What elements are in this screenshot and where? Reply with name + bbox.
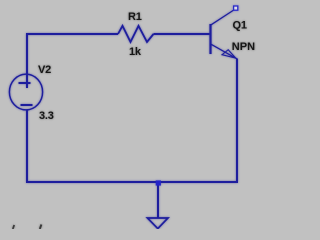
svg-text:NPN: NPN <box>232 41 255 53</box>
soft glow underlay of whole schematic <box>9 6 255 229</box>
wire top-left horizontal (node N1) <box>27 33 118 35</box>
svg-text:R1: R1 <box>128 11 142 23</box>
wire left vertical from corner to V2 plus stem <box>26 33 28 88</box>
V2 minus sign bar <box>21 104 33 106</box>
transistor Q1 base bar <box>209 24 211 54</box>
svg-text:V2: V2 <box>38 64 51 76</box>
svg-text:1k: 1k <box>129 46 142 58</box>
V2 plus sign crossbar <box>19 82 31 84</box>
svg-text:Q1: Q1 <box>233 20 247 32</box>
wire bottom rail (ground net) <box>26 181 238 183</box>
ground stub wire <box>157 183 159 218</box>
wire resistor right to base (node N2) <box>154 33 210 35</box>
junction dot (bottom rail / ground) <box>156 180 161 185</box>
voltage source V2 circle <box>9 74 42 110</box>
transistor Q1 emitter diagonal <box>211 44 237 59</box>
ground symbol triangle <box>147 218 168 229</box>
wire right vertical (emitter to bottom rail) <box>236 59 238 184</box>
cut-off text artifact 2 (bottom-left) <box>40 225 42 230</box>
cut-off text artifact 1 (bottom-left) <box>13 225 14 229</box>
svg-text:3.3: 3.3 <box>39 110 54 122</box>
wire V2 bottom to bottom rail <box>26 110 28 183</box>
transistor Q1 collector diagonal <box>211 10 234 25</box>
resistor R1 zigzag body <box>118 26 154 42</box>
collector open pin square terminal <box>234 6 238 10</box>
transistor Q1 emitter arrowhead <box>222 50 236 59</box>
